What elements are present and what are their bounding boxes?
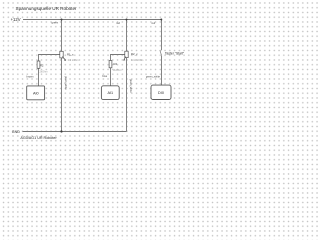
svg-text:0-10 kOhm: 0-10 kOhm	[131, 59, 143, 62]
svg-text:R2_v: R2_v	[131, 52, 138, 56]
svg-text:DI0: DI0	[158, 91, 164, 95]
svg-text:GND: GND	[12, 130, 20, 134]
svg-text:blue: blue	[102, 74, 107, 78]
svg-text:green_white: green_white	[64, 76, 67, 90]
svg-text:AI1: AI1	[107, 91, 113, 95]
svg-text:+12V: +12V	[11, 17, 21, 22]
svg-text:green: green	[52, 20, 59, 24]
svg-text:AI0: AI0	[33, 91, 39, 95]
svg-text:red: red	[151, 21, 155, 25]
svg-text:2kOhm: 2kOhm	[113, 69, 121, 72]
svg-text:AG0/AG1 UR Roboter: AG0/AG1 UR Roboter	[20, 136, 57, 140]
svg-text:0-2 kOhm: 0-2 kOhm	[68, 59, 79, 62]
svg-text:green_white: green_white	[146, 74, 161, 78]
svg-text:brown: brown	[26, 75, 34, 79]
svg-text:R2: R2	[40, 64, 44, 68]
svg-text:R4: R4	[114, 62, 118, 66]
svg-text:2kOhm: 2kOhm	[40, 70, 48, 73]
svg-text:Spannungsquelle UR Roboter: Spannungsquelle UR Roboter	[16, 6, 78, 11]
svg-text:R1_s: R1_s	[67, 53, 74, 57]
svg-text:Taster "Start": Taster "Start"	[165, 52, 185, 56]
svg-text:green_white: green_white	[129, 79, 132, 93]
svg-text:red: red	[116, 21, 120, 25]
